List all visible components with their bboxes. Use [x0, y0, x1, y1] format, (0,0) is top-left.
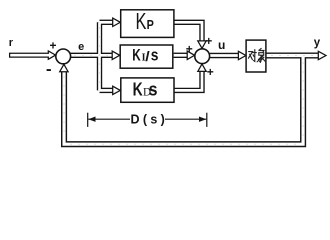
svg-text:+: +: [49, 38, 56, 52]
svg-text:K: K: [132, 47, 141, 65]
svg-text:+: +: [205, 34, 212, 48]
svg-text:D(s): D(s): [131, 112, 169, 126]
svg-text:y: y: [314, 37, 321, 49]
svg-text:K: K: [136, 9, 147, 34]
svg-text:+: +: [207, 65, 214, 79]
svg-text:e: e: [78, 41, 84, 53]
svg-text:u: u: [218, 38, 225, 52]
svg-text:K: K: [133, 79, 143, 101]
svg-text:P: P: [147, 17, 154, 32]
svg-text:s: s: [151, 47, 159, 65]
svg-text:+: +: [186, 42, 193, 56]
svg-text:r: r: [9, 37, 14, 49]
svg-text:/: /: [145, 50, 149, 65]
svg-text:s: s: [149, 78, 158, 100]
